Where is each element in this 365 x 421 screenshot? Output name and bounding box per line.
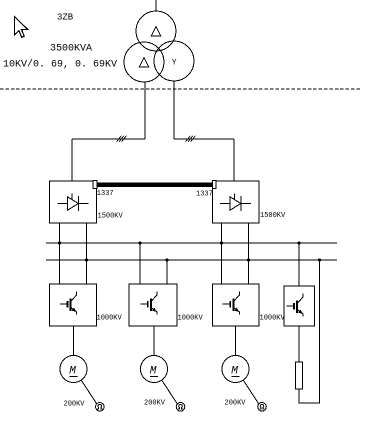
- svg-text:1337: 1337: [97, 190, 114, 198]
- delta symbol in primary: [151, 27, 160, 36]
- svg-text:M: M: [150, 366, 157, 378]
- svg-text:Y: Y: [172, 58, 177, 67]
- rectifier U1 box: [50, 181, 97, 223]
- wire (resistor bottom loop): [299, 260, 320, 403]
- wire (motor M1 earth lead): [82, 381, 97, 404]
- wire (rectifier U1 - output): [86, 223, 88, 284]
- svg-text:M: M: [231, 366, 238, 378]
- transformer T1 tertiary winding circle (wye): [154, 41, 194, 81]
- motor M2: [141, 356, 168, 383]
- wire (inverter U5 to motor M3): [235, 326, 237, 356]
- svg-text:1000KV: 1000KV: [178, 315, 204, 323]
- dashed boundary line: [0, 88, 361, 90]
- svg-text:1000KV: 1000KV: [260, 315, 286, 323]
- svg-text:1337: 1337: [196, 191, 213, 199]
- busbar terminal right: [212, 181, 216, 189]
- motor M3: [222, 356, 249, 383]
- wire (chopper to resistor): [298, 326, 300, 362]
- inverter U5 IGBT symbol: [223, 292, 240, 315]
- inverter U4 IGBT symbol: [140, 292, 157, 315]
- DC busbar (thick): [97, 182, 213, 187]
- wire (inverter U4 + input): [139, 243, 141, 284]
- inverter U4 box: [129, 284, 177, 326]
- svg-text:1500KV: 1500KV: [98, 213, 124, 221]
- svg-text:10KV/0. 69, 0. 69KV: 10KV/0. 69, 0. 69KV: [3, 59, 117, 71]
- wire (incoming line above transformer): [155, 0, 157, 11]
- DC bus positive rail: [46, 242, 337, 244]
- svg-text:1000KV: 1000KV: [97, 315, 123, 323]
- three-phase slash mark right: [186, 136, 196, 142]
- junction dots: [58, 241, 321, 261]
- wire (motor M3 earth lead): [244, 381, 259, 404]
- inverter U3 box: [50, 284, 97, 326]
- wire (inverter U4 - input): [166, 260, 168, 284]
- three-phase slash mark left: [117, 136, 127, 142]
- wire (right horizontal feeder): [174, 138, 234, 140]
- delta symbol in secondary: [139, 58, 148, 67]
- brake resistor R1: [296, 362, 303, 389]
- wire (motor M2 earth lead): [162, 381, 177, 404]
- wire (inverter U3 to motor M1): [73, 326, 75, 356]
- earth electrode symbol 1: [96, 403, 105, 412]
- wire (rectifier U2 + output): [221, 223, 223, 284]
- rectifier U2 thyristor symbol: [220, 194, 251, 212]
- svg-text:200KV: 200KV: [64, 401, 86, 409]
- earth electrode symbol 3: [258, 403, 267, 412]
- wire (rectifier U1 + output): [59, 223, 61, 284]
- wire (left feeder drop to rectifier): [71, 139, 73, 181]
- busbar terminal left: [93, 181, 97, 189]
- transformer T1 primary winding circle: [136, 11, 176, 51]
- transformer T1 secondary winding circle (delta): [124, 42, 164, 82]
- svg-text:200KV: 200KV: [144, 400, 166, 408]
- mouse cursor: [15, 17, 28, 38]
- wire (right bushing drop): [173, 81, 175, 139]
- earth electrode symbol 2: [176, 403, 185, 412]
- rectifier U2 box: [213, 181, 260, 223]
- wire (left bushing drop): [144, 82, 146, 139]
- brake chopper U6 box: [284, 286, 315, 326]
- wire (right feeder drop to rectifier): [233, 139, 235, 181]
- wire (rectifier U2 - output): [248, 223, 250, 284]
- motor M1: [60, 356, 87, 383]
- DC bus negative rail: [46, 259, 337, 261]
- inverter U5 box: [213, 284, 260, 326]
- brake chopper U6 IGBT symbol: [286, 294, 303, 317]
- svg-text:200KV: 200KV: [225, 400, 247, 408]
- rectifier U1 thyristor symbol: [58, 194, 89, 212]
- wire (inverter U4 to motor M2): [153, 326, 155, 356]
- svg-text:3500KVA: 3500KVA: [50, 44, 92, 55]
- inverter U3 IGBT symbol: [60, 292, 77, 315]
- svg-text:3ZB: 3ZB: [57, 13, 74, 23]
- wire (left horizontal feeder): [72, 138, 145, 140]
- svg-text:1500KV: 1500KV: [260, 212, 286, 220]
- wire (chopper U6 input): [298, 243, 300, 286]
- svg-text:M: M: [69, 366, 76, 378]
